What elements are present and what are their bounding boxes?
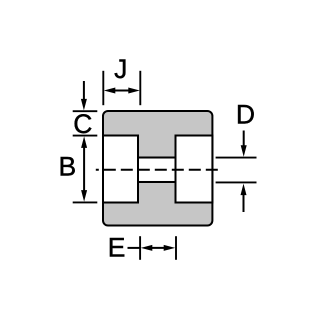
svg-text:C: C xyxy=(73,109,92,139)
svg-text:E: E xyxy=(108,232,126,262)
svg-text:D: D xyxy=(236,100,255,130)
svg-text:B: B xyxy=(58,152,76,182)
svg-text:J: J xyxy=(114,54,127,84)
